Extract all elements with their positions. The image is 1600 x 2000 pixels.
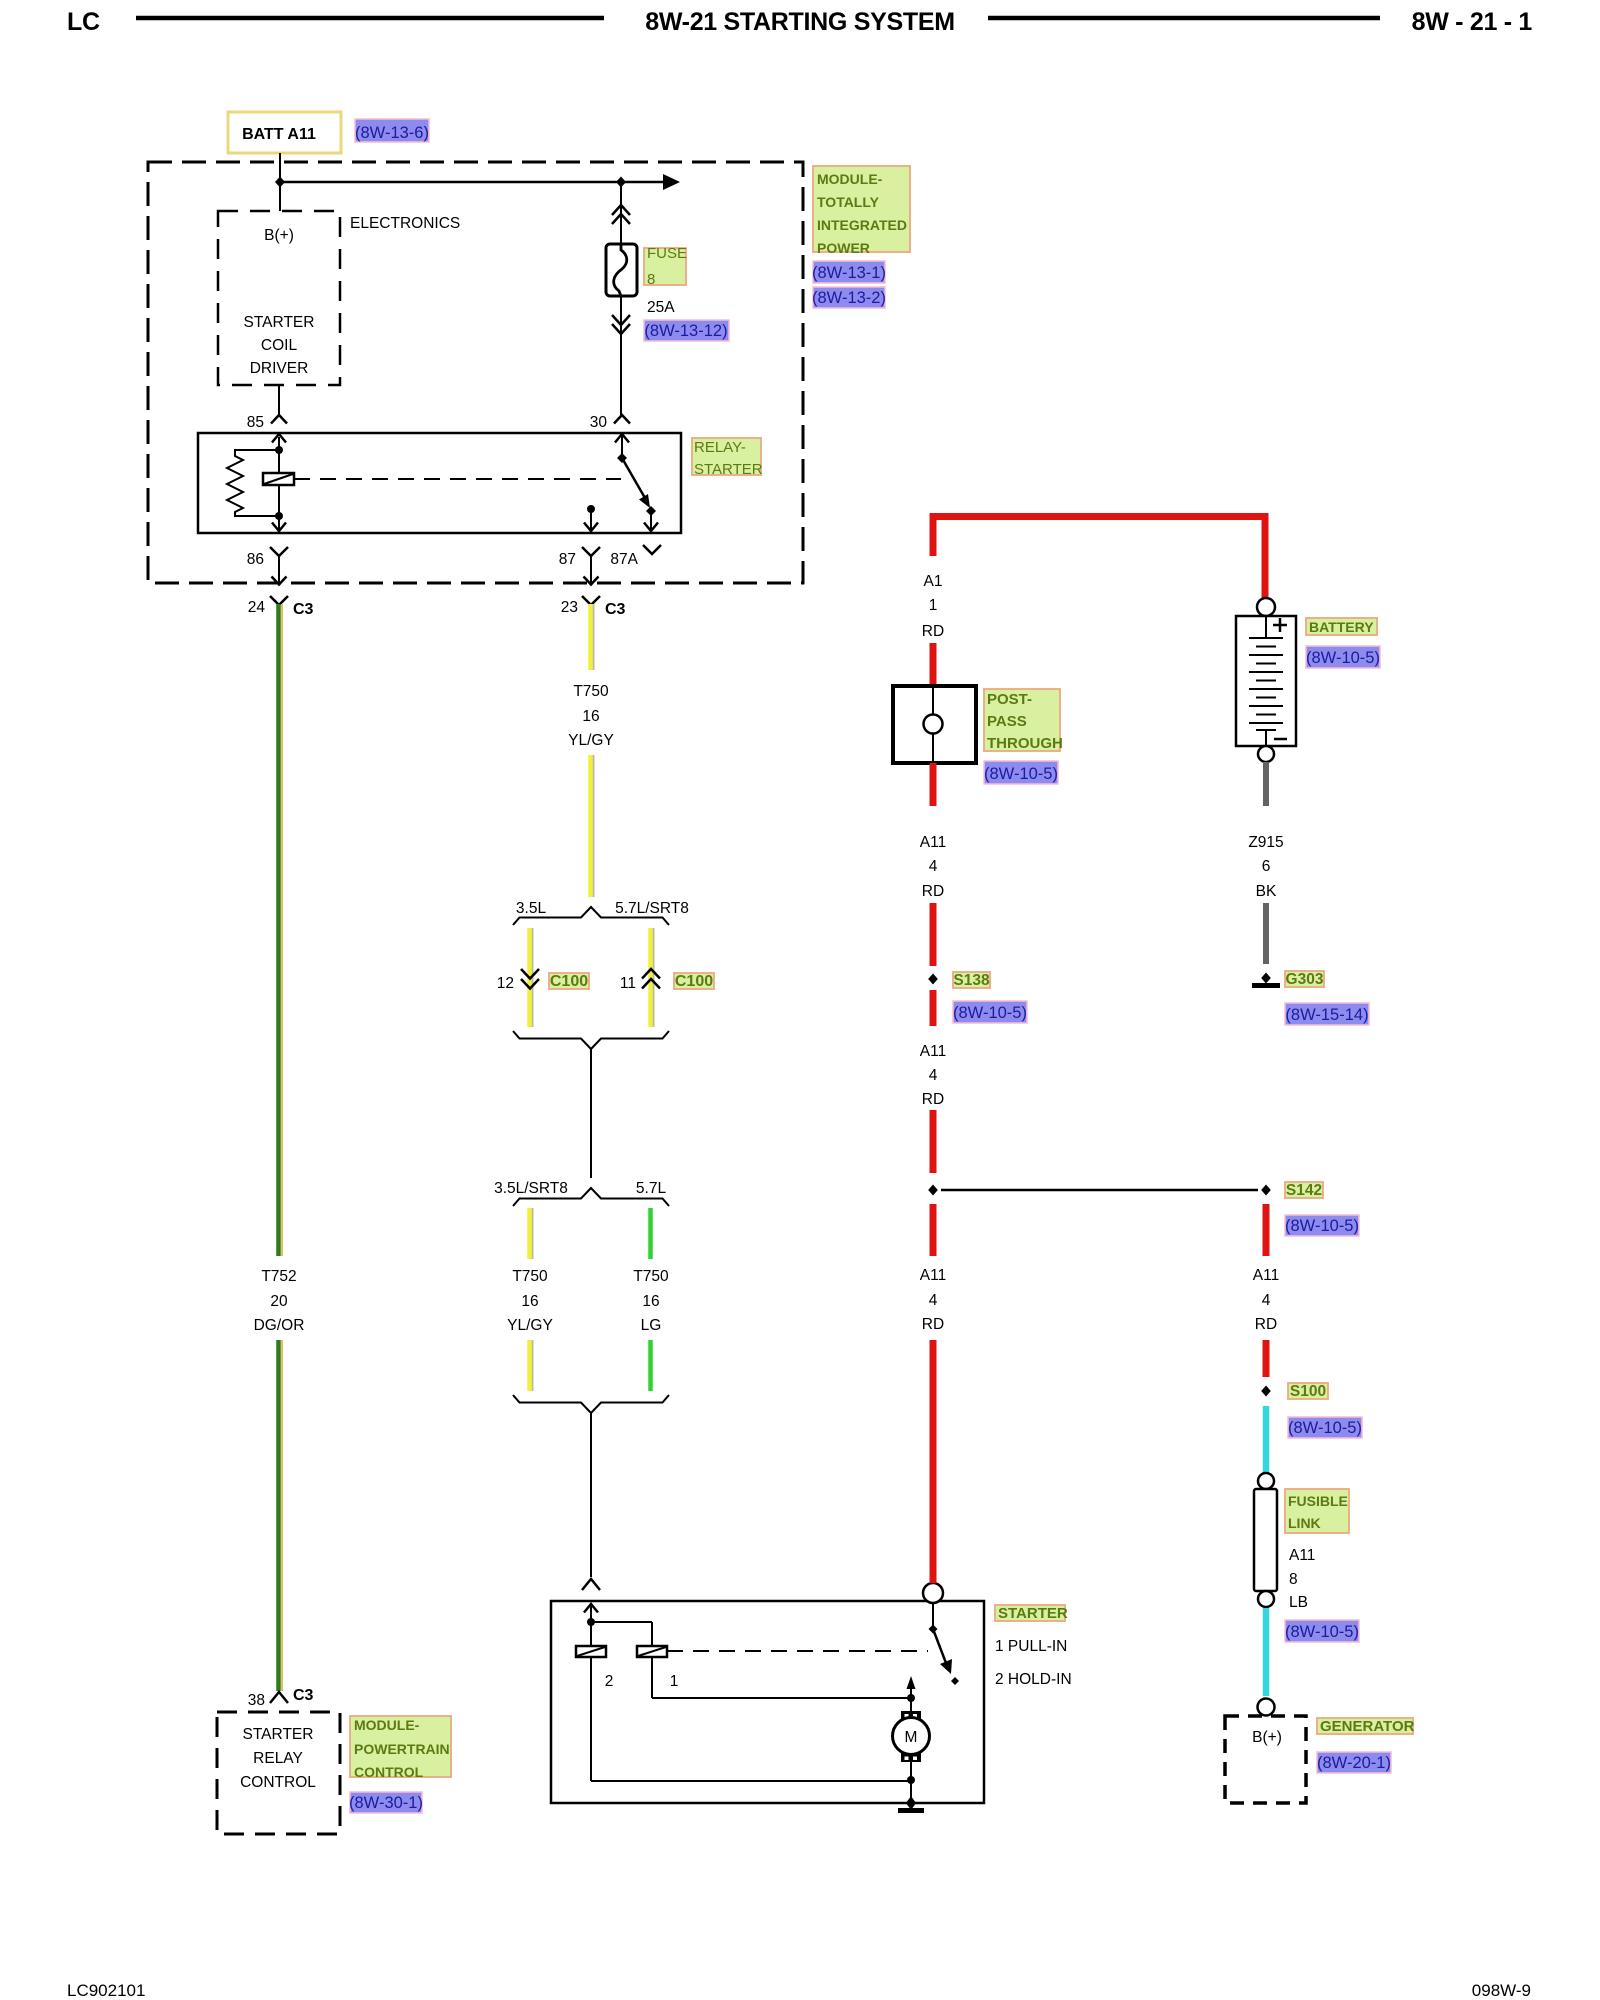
svg-text:S142: S142 <box>1286 1182 1322 1199</box>
svg-text:A1: A1 <box>924 573 943 590</box>
svg-text:A11: A11 <box>1253 1267 1279 1284</box>
connector pin 11 C100 <box>620 969 660 992</box>
svg-text:1: 1 <box>670 1673 679 1690</box>
reference (8W-10-5) S100 <box>1288 1417 1362 1438</box>
svg-text:A11: A11 <box>920 834 946 851</box>
wire driver to relay pin 85 <box>278 385 280 415</box>
connector 38 C3 <box>248 1687 314 1709</box>
pin 86 connector exit <box>247 547 288 585</box>
svg-text:86: 86 <box>247 551 264 568</box>
svg-text:5.7L/SRT8: 5.7L/SRT8 <box>615 900 689 917</box>
wire coil1 to motor feed <box>652 1657 911 1698</box>
wire fuse to relay pin 30 <box>620 295 622 415</box>
svg-text:5.7L: 5.7L <box>636 1180 667 1197</box>
label FUSIBLE LINK <box>1285 1489 1349 1533</box>
wire coil2 to motor return <box>591 1657 911 1781</box>
wire fuse feed <box>620 182 622 244</box>
svg-text:LC902101: LC902101 <box>67 1981 145 2000</box>
reference (8W-10-5) battery <box>1306 646 1380 668</box>
svg-text:(8W-10-5): (8W-10-5) <box>984 765 1058 783</box>
svg-text:ELECTRONICS: ELECTRONICS <box>350 215 460 232</box>
label S100 <box>1288 1383 1328 1400</box>
svg-text:1 PULL-IN: 1 PULL-IN <box>995 1638 1067 1655</box>
wire A11 8 LB upper <box>1263 1406 1270 1473</box>
svg-text:RELAY: RELAY <box>253 1750 303 1767</box>
svg-text:4: 4 <box>929 1292 938 1309</box>
wire 3.5L branch yellow <box>530 928 533 1027</box>
svg-text:(8W-10-5): (8W-10-5) <box>1285 1623 1359 1641</box>
svg-text:(8W-20-1): (8W-20-1) <box>1317 1754 1391 1772</box>
svg-text:8: 8 <box>647 271 655 288</box>
svg-text:4: 4 <box>1262 1292 1271 1309</box>
svg-text:T750: T750 <box>573 683 609 700</box>
svg-text:GENERATOR: GENERATOR <box>1320 1718 1415 1735</box>
svg-text:16: 16 <box>521 1293 538 1310</box>
label A11 4 RD lower left <box>920 1267 946 1333</box>
svg-text:STARTER: STARTER <box>694 461 763 478</box>
reference (8W-20-1) <box>1317 1752 1391 1773</box>
svg-text:11: 11 <box>620 975 636 992</box>
wire B+ feeder to right <box>280 174 680 190</box>
wire A11 4 RD to S138 <box>930 903 937 966</box>
wire Z915 6 BK upper <box>1263 762 1269 806</box>
label C100 right <box>674 973 714 990</box>
svg-text:2: 2 <box>605 1673 614 1690</box>
svg-text:S100: S100 <box>1290 1383 1326 1400</box>
svg-text:A11: A11 <box>920 1267 946 1284</box>
relay coil branch pin 85 <box>272 434 286 531</box>
label MODULE-POWERTRAIN CONTROL <box>350 1716 451 1780</box>
svg-text:(8W-10-5): (8W-10-5) <box>1306 649 1380 667</box>
svg-text:16: 16 <box>582 708 599 725</box>
reference (8W-10-5) post <box>984 761 1058 784</box>
svg-text:RD: RD <box>922 1316 944 1333</box>
svg-text:(8W-15-14): (8W-15-14) <box>1285 1006 1368 1024</box>
svg-text:STARTER: STARTER <box>243 1726 314 1743</box>
reference (8W-10-5) S142 <box>1285 1215 1359 1236</box>
svg-text:8W - 21 - 1: 8W - 21 - 1 <box>1412 8 1533 36</box>
splice S100 <box>1261 1386 1271 1397</box>
label T750 16 LG branch <box>633 1268 669 1334</box>
reference (8W-13-6) <box>355 119 429 142</box>
svg-text:25A: 25A <box>647 299 675 316</box>
svg-text:TOTALLY: TOTALLY <box>817 194 880 210</box>
svg-text:BATT A11: BATT A11 <box>242 126 316 143</box>
fusible link body <box>1254 1473 1277 1607</box>
relay pin 87 <box>584 505 598 531</box>
svg-text:(8W-10-5): (8W-10-5) <box>1285 1217 1359 1235</box>
svg-text:Z915: Z915 <box>1248 834 1283 851</box>
solenoid actuation dashed link <box>667 1650 928 1652</box>
label RELAY-STARTER <box>692 438 763 478</box>
engine merge brace upper <box>513 1031 669 1049</box>
wire A11 8 LB lower <box>1263 1608 1270 1696</box>
motor M1 <box>893 1711 930 1762</box>
wire from BATT A11 <box>279 153 281 211</box>
svg-text:PASS: PASS <box>987 713 1027 730</box>
svg-text:(8W-13-6): (8W-13-6) <box>355 124 429 142</box>
svg-text:87: 87 <box>559 551 576 568</box>
svg-text:87A: 87A <box>610 551 638 568</box>
engine merge brace lower <box>513 1395 669 1413</box>
svg-text:20: 20 <box>270 1293 288 1310</box>
wire S142 to starter left <box>930 1204 937 1256</box>
ground at starter <box>898 1796 924 1811</box>
svg-text:FUSIBLE: FUSIBLE <box>1288 1493 1348 1509</box>
svg-text:RD: RD <box>1255 1316 1277 1333</box>
label T752 20 DG/OR <box>254 1268 305 1334</box>
label GENERATOR <box>1317 1718 1415 1735</box>
wire RD into post <box>930 643 937 688</box>
starter motor box <box>551 1601 984 1803</box>
svg-text:(8W-13-12): (8W-13-12) <box>644 322 727 340</box>
svg-text:C100: C100 <box>675 973 713 990</box>
svg-text:G303: G303 <box>1286 971 1324 988</box>
svg-text:CONTROL: CONTROL <box>354 1764 424 1780</box>
svg-text:C3: C3 <box>293 1687 314 1704</box>
pin 87 connector exit <box>559 547 600 585</box>
svg-text:COIL: COIL <box>261 337 298 354</box>
FOOTER <box>67 1981 1531 2000</box>
starter B+ terminal <box>923 1583 943 1603</box>
svg-text:FUSE: FUSE <box>647 245 687 262</box>
solenoid coil 1 pull-in <box>637 1646 678 1690</box>
relay coil symbol <box>263 473 294 485</box>
label FUSE 8 <box>644 245 687 288</box>
relay pin 87A <box>644 511 658 531</box>
svg-text:T752: T752 <box>261 1268 296 1285</box>
svg-text:B(+): B(+) <box>264 227 294 244</box>
relay switch pin 30 <box>615 433 656 516</box>
label A1 1 RD <box>922 573 944 640</box>
battery B1 <box>1236 598 1296 762</box>
label Z915 6 BK <box>1248 834 1283 900</box>
pin 85 connector <box>247 414 287 431</box>
svg-text:STARTER: STARTER <box>998 1605 1068 1622</box>
node fuse tap <box>616 177 626 188</box>
svg-text:POWERTRAIN: POWERTRAIN <box>354 1741 450 1757</box>
svg-text:MODULE-: MODULE- <box>354 1717 420 1733</box>
wire T750 16 YL/GY to engine split <box>591 755 594 897</box>
reference (8W-10-5) fusible link <box>1285 1620 1359 1642</box>
solenoid coil 2 hold-in <box>576 1646 613 1690</box>
svg-text:LG: LG <box>641 1317 662 1334</box>
wire T750 16 YL/GY upper run <box>591 604 594 670</box>
label T750 16 YL/GY <box>568 683 614 749</box>
wire 5.7L/SRT8 branch yellow <box>651 928 654 1027</box>
label A11 4 RD right <box>1253 1267 1279 1333</box>
wire A11 4 RD to starter terminal <box>930 1340 937 1583</box>
wire A11 4 RD to S142 <box>930 1110 937 1173</box>
svg-text:(8W-10-5): (8W-10-5) <box>953 1004 1027 1022</box>
svg-text:16: 16 <box>642 1293 659 1310</box>
label G303 <box>1285 971 1324 988</box>
wire T752 20 DG/OR upper run <box>279 604 283 1256</box>
module powertrain control dashed box <box>217 1712 340 1834</box>
svg-text:YL/GY: YL/GY <box>507 1317 553 1334</box>
relay K-starter box <box>198 433 681 533</box>
reference (8W-13-1) <box>812 261 886 283</box>
svg-text:38: 38 <box>248 1692 265 1709</box>
svg-text:CONTROL: CONTROL <box>240 1774 316 1791</box>
connector chevrons above fuse <box>612 205 630 224</box>
svg-text:1: 1 <box>929 597 938 614</box>
svg-text:(8W-13-2): (8W-13-2) <box>812 289 886 307</box>
svg-text:8: 8 <box>1289 1571 1298 1588</box>
svg-text:THROUGH: THROUGH <box>987 735 1063 752</box>
label S138 <box>953 972 990 989</box>
node junction at B+ feed <box>275 177 285 188</box>
label POST-PASS THROUGH <box>984 689 1063 752</box>
svg-text:(8W-10-5): (8W-10-5) <box>1288 1419 1362 1437</box>
svg-text:MODULE-: MODULE- <box>817 171 883 187</box>
wire S142 to A11 label right <box>1263 1204 1270 1256</box>
splice S142 link <box>928 1185 1271 1196</box>
svg-text:POST-: POST- <box>987 691 1032 708</box>
wire merged link <box>590 1049 592 1178</box>
svg-text:LB: LB <box>1289 1594 1308 1611</box>
fuse F8 body <box>606 244 637 296</box>
svg-text:24: 24 <box>248 599 266 616</box>
label MODULE-TOTALLY INTEGRATED POWER <box>813 166 910 256</box>
svg-text:BATTERY: BATTERY <box>1309 619 1374 635</box>
svg-text:INTEGRATED: INTEGRATED <box>817 217 907 233</box>
wire 3.5L/SRT8 branch yellow upper <box>530 1208 533 1259</box>
relay actuation dashed link <box>294 478 621 480</box>
label A11 8 LB <box>1289 1547 1315 1611</box>
reference (8W-10-5) S138 <box>953 1001 1027 1023</box>
reference (8W-13-2) <box>812 287 886 308</box>
svg-text:DRIVER: DRIVER <box>250 360 309 377</box>
svg-text:STARTER: STARTER <box>244 314 315 331</box>
connector pin 12 C100 <box>497 969 539 992</box>
label A11 4 RD <box>920 834 946 900</box>
label S142 <box>1285 1182 1323 1199</box>
svg-text:BK: BK <box>1256 883 1277 900</box>
label C100 left <box>549 973 589 990</box>
svg-text:3.5L/SRT8: 3.5L/SRT8 <box>494 1180 568 1197</box>
engine split brace lower <box>513 1188 669 1206</box>
svg-text:6: 6 <box>1262 858 1271 875</box>
svg-text:(8W-30-1): (8W-30-1) <box>349 1794 423 1812</box>
svg-text:YL/GY: YL/GY <box>568 732 614 749</box>
label BATTERY <box>1306 618 1377 635</box>
svg-text:LINK: LINK <box>1288 1515 1321 1531</box>
svg-text:DG/OR: DG/OR <box>254 1317 305 1334</box>
svg-text:RD: RD <box>922 883 944 900</box>
svg-text:3.5L: 3.5L <box>516 900 547 917</box>
wire A11 4 RD below post <box>930 763 937 806</box>
wire S138 down <box>930 990 937 1026</box>
label A11 4 RD mid <box>920 1043 946 1108</box>
wire A11 4 RD to S100 <box>1263 1340 1270 1377</box>
wire to starter solenoid <box>590 1413 592 1577</box>
ground G303 <box>1252 973 1280 986</box>
connector chevrons below fuse <box>612 315 630 334</box>
svg-text:RELAY-: RELAY- <box>694 439 746 456</box>
wire motor to ground <box>907 1762 915 1803</box>
reference (8W-13-12) <box>644 320 729 341</box>
svg-text:S138: S138 <box>953 972 990 989</box>
reference (8W-30-1) <box>349 1792 423 1813</box>
fuse block BATT A11 <box>228 112 341 153</box>
wire A1 1 RD feed loop <box>933 517 1265 600</box>
generator terminal <box>1258 1699 1275 1716</box>
wire T752 20 DG/OR lower run <box>279 1340 283 1691</box>
svg-text:M: M <box>905 1729 918 1746</box>
svg-text:RD: RD <box>922 623 944 640</box>
svg-text:12: 12 <box>497 975 514 992</box>
svg-text:(8W-13-1): (8W-13-1) <box>812 264 886 282</box>
reference (8W-15-14) <box>1285 1003 1369 1025</box>
svg-text:30: 30 <box>590 414 608 431</box>
svg-text:098W-9: 098W-9 <box>1472 1981 1531 2000</box>
svg-text:4: 4 <box>929 1067 938 1084</box>
svg-text:C100: C100 <box>550 973 588 990</box>
HEADER <box>67 8 1532 36</box>
wire Z915 6 BK lower <box>1263 903 1269 964</box>
pin 87A connector <box>610 545 661 568</box>
svg-text:T750: T750 <box>633 1268 669 1285</box>
starter coil driver dashed box <box>218 211 340 385</box>
pin 30 connector <box>590 414 630 431</box>
engine split brace upper <box>513 907 669 925</box>
svg-text:RD: RD <box>922 1091 944 1108</box>
svg-text:C3: C3 <box>293 601 314 618</box>
svg-text:8W-21 STARTING SYSTEM: 8W-21 STARTING SYSTEM <box>645 8 954 36</box>
wire 3.5L/SRT8 branch yellow lower <box>530 1340 533 1391</box>
generator dashed box <box>1225 1716 1306 1803</box>
svg-text:4: 4 <box>929 858 938 875</box>
svg-text:85: 85 <box>247 414 264 431</box>
svg-text:B(+): B(+) <box>1252 1729 1282 1746</box>
svg-text:T750: T750 <box>512 1268 548 1285</box>
svg-text:2 HOLD-IN: 2 HOLD-IN <box>995 1671 1072 1688</box>
post pass-through box <box>893 686 976 763</box>
wire 5.7L branch green upper <box>648 1208 653 1259</box>
svg-text:LC: LC <box>67 8 100 36</box>
connector 24 C3 <box>248 596 314 618</box>
svg-text:A11: A11 <box>1289 1547 1315 1564</box>
motor feed node <box>907 1676 916 1711</box>
svg-text:A11: A11 <box>920 1043 946 1060</box>
svg-text:23: 23 <box>561 599 578 616</box>
label STARTER <box>995 1605 1068 1622</box>
module TIPM dashed outline <box>148 162 803 583</box>
svg-text:C3: C3 <box>605 601 626 618</box>
connector 23 C3 <box>561 596 626 618</box>
svg-text:POWER: POWER <box>817 240 870 256</box>
wire 5.7L branch green lower <box>648 1340 653 1391</box>
splice S138 <box>928 974 938 985</box>
label T750 16 YL/GY branch <box>507 1268 553 1334</box>
starter contact switch <box>929 1603 960 1685</box>
starter solenoid feed <box>584 1604 652 1646</box>
starter input connector <box>582 1579 600 1590</box>
relay resistor <box>227 450 279 516</box>
